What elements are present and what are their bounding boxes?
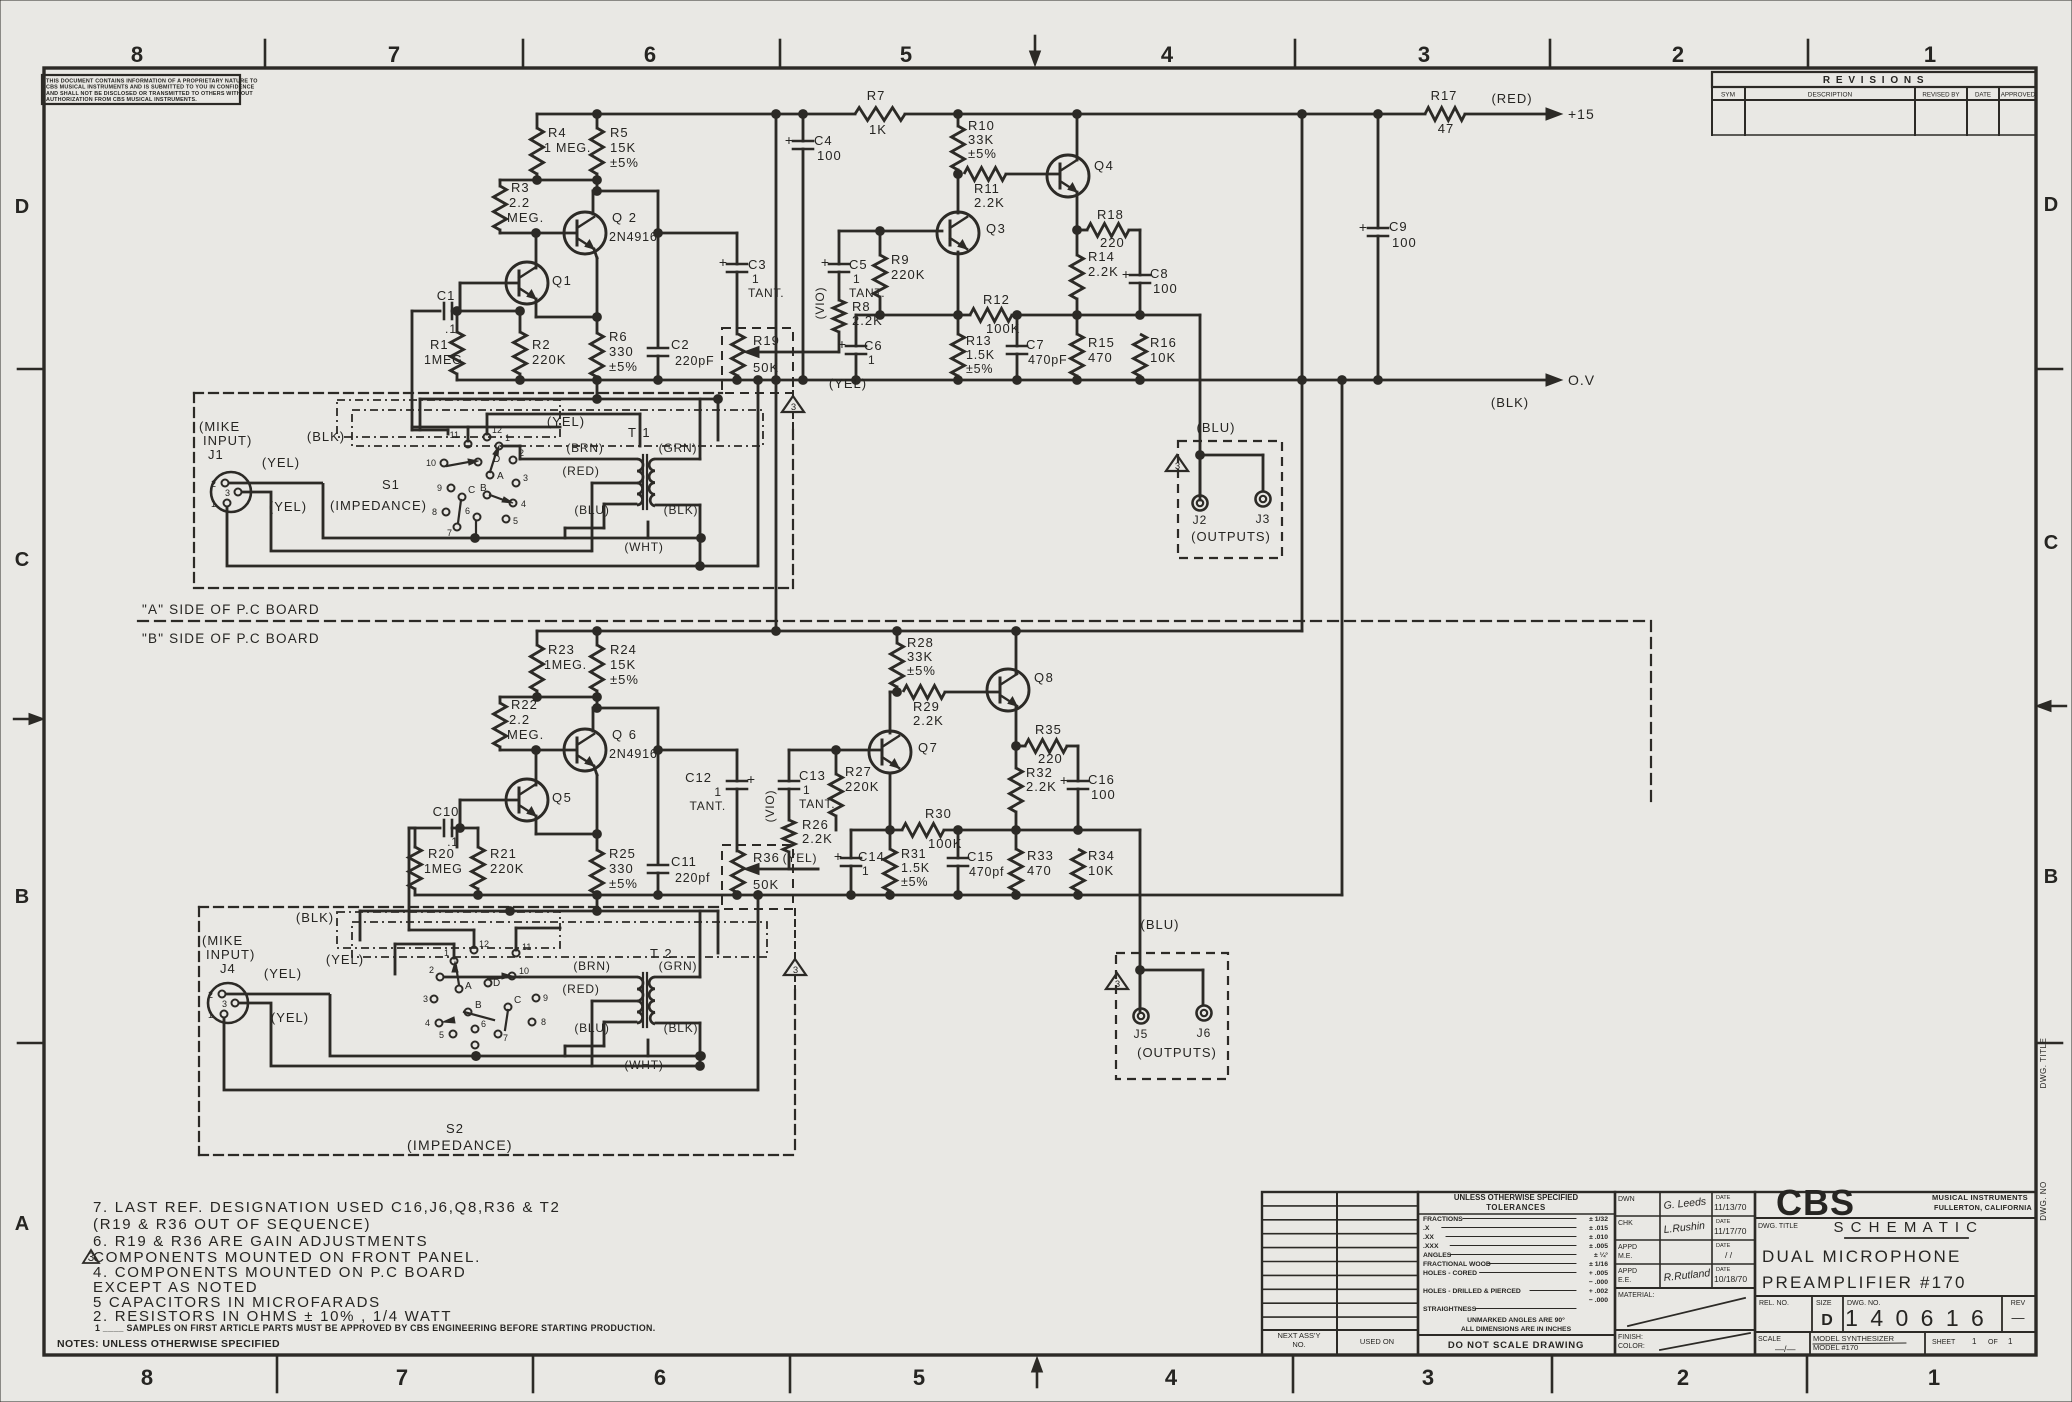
svg-text:FRACTIONAL WOOD: FRACTIONAL WOOD — [1423, 1261, 1491, 1268]
svg-text:REVISED BY: REVISED BY — [1922, 92, 1959, 99]
svg-text:—: — — [2012, 1310, 2025, 1325]
svg-text:220K: 220K — [532, 352, 566, 367]
svg-text:DWG. NO: DWG. NO — [2039, 1181, 2048, 1221]
svg-text:R21: R21 — [490, 846, 517, 861]
svg-text:R23: R23 — [548, 642, 575, 657]
resistor R10 — [957, 114, 960, 126]
svg-text:B: B — [480, 483, 487, 494]
resistor R34 — [1072, 849, 1085, 891]
svg-text:(MIKE: (MIKE — [199, 419, 240, 434]
svg-text:R1: R1 — [430, 337, 449, 352]
svg-text:2.2: 2.2 — [509, 195, 530, 210]
A-side PC board dashed box — [194, 392, 722, 394]
svg-text:3: 3 — [423, 994, 428, 1004]
capacitor C5 — [838, 231, 841, 264]
capacitor C6 — [855, 315, 858, 346]
svg-text:100: 100 — [1153, 281, 1178, 296]
svg-text:R33: R33 — [1027, 848, 1054, 863]
svg-text:+: + — [1060, 772, 1068, 788]
svg-text:6: 6 — [654, 1365, 666, 1390]
bottom zone ticks — [276, 1355, 279, 1392]
wire contact 6 to common bus — [475, 521, 477, 538]
svg-text:220K: 220K — [490, 861, 524, 876]
svg-text:+: + — [719, 254, 727, 270]
left center arrow — [14, 718, 38, 720]
svg-text:R22: R22 — [511, 697, 538, 712]
svg-text:.1: .1 — [445, 322, 457, 336]
svg-text:(VIO): (VIO) — [763, 790, 777, 823]
svg-text:MEG.: MEG. — [507, 727, 544, 742]
svg-text:R18: R18 — [1097, 207, 1124, 222]
resistor R9 — [879, 231, 882, 255]
svg-text:11/13/70: 11/13/70 — [1714, 1202, 1747, 1212]
svg-text:(MIKE: (MIKE — [202, 933, 243, 948]
transistor Q4 — [1047, 155, 1089, 197]
resistor R18 — [1077, 229, 1087, 232]
svg-text:2.2: 2.2 — [509, 712, 530, 727]
capacitor C15 — [957, 830, 960, 858]
svg-text:R34: R34 — [1088, 848, 1115, 863]
svg-text:220pF: 220pF — [675, 354, 714, 368]
resistor R21 — [477, 828, 480, 847]
svg-text:5: 5 — [900, 42, 912, 67]
svg-text:3: 3 — [1175, 461, 1180, 472]
svg-text:PREAMPLIFIER #170: PREAMPLIFIER #170 — [1762, 1273, 1967, 1292]
svg-text:DATE: DATE — [1975, 92, 1991, 99]
svg-text:8: 8 — [131, 42, 143, 67]
svg-text:(YEL): (YEL) — [269, 499, 307, 514]
svg-text:33K: 33K — [907, 649, 933, 664]
svg-text:+: + — [1122, 266, 1130, 282]
title block left grid — [1262, 1192, 1418, 1355]
svg-text:TANT.: TANT. — [748, 286, 784, 300]
transformer T1 secondary lead GRN — [656, 458, 700, 461]
R19 wiper arrow — [752, 351, 838, 354]
wire Q8 emitter node — [1015, 706, 1018, 768]
resistor R31 — [889, 830, 892, 849]
svg-text:470pf: 470pf — [969, 865, 1004, 879]
svg-text:J5: J5 — [1134, 1027, 1149, 1041]
svg-text:1.5K: 1.5K — [966, 348, 995, 362]
svg-text:C15: C15 — [967, 849, 994, 864]
svg-text:ALL DIMENSIONS ARE IN INCHES: ALL DIMENSIONS ARE IN INCHES — [1461, 1326, 1572, 1333]
svg-text:S1: S1 — [382, 477, 400, 492]
svg-text:R9: R9 — [891, 252, 910, 267]
wire R20 top — [409, 827, 415, 830]
svg-text:1: 1 — [752, 272, 760, 286]
wire output BLU channel B — [1078, 829, 1140, 832]
svg-text:APPD: APPD — [1618, 1268, 1637, 1275]
+15 supply rail — [537, 113, 855, 116]
resistor R32 — [1010, 768, 1023, 812]
svg-text:(BLK): (BLK) — [664, 503, 699, 517]
scale / model / sheet row — [1809, 1332, 1811, 1355]
title block company area — [1755, 1192, 2036, 1355]
transformer T2 primary lead BLU — [604, 1021, 636, 1024]
proprietary notice box — [42, 75, 240, 104]
capacitor C13 — [788, 750, 791, 781]
transformer T1 primary winding — [637, 459, 643, 505]
wire to J5 — [1136, 966, 1145, 975]
svg-text:J4: J4 — [220, 961, 236, 976]
svg-text:− .000: − .000 — [1589, 1297, 1608, 1304]
svg-text:R36: R36 — [753, 850, 780, 865]
svg-text:HOLES - CORED: HOLES - CORED — [1423, 1270, 1477, 1277]
svg-text:.XX: .XX — [1423, 1234, 1434, 1241]
svg-text:CHK: CHK — [1618, 1220, 1633, 1227]
channel B return rail — [415, 894, 1342, 897]
svg-text:SYM: SYM — [1721, 92, 1735, 99]
svg-text:1: 1 — [211, 499, 216, 509]
svg-text:33K: 33K — [968, 132, 994, 147]
svg-text:COLOR:: COLOR: — [1618, 1343, 1645, 1350]
capacitor C4 — [802, 114, 805, 141]
svg-text:R28: R28 — [907, 635, 934, 650]
svg-text:470: 470 — [1027, 863, 1052, 878]
wire R20 bottom to rail — [414, 889, 417, 895]
svg-text:J3: J3 — [1256, 512, 1271, 526]
triangle note 3 marker channel A gain pot — [782, 396, 804, 412]
svg-text:R35: R35 — [1035, 722, 1062, 737]
wire Q6 collector node to C11/C12 — [657, 708, 660, 864]
inner shield dash-dot box B — [337, 912, 560, 948]
svg-text:100: 100 — [817, 148, 842, 163]
wire Q7 emitter — [889, 773, 892, 830]
capacitor C10 — [443, 820, 446, 836]
svg-text:C8: C8 — [1150, 266, 1169, 281]
svg-text:USED ON: USED ON — [1360, 1337, 1394, 1346]
right zone ticks — [2036, 368, 2062, 371]
svg-text:R2: R2 — [532, 337, 551, 352]
svg-text:2N4916: 2N4916 — [609, 747, 658, 761]
bottom center arrow — [1036, 1363, 1039, 1387]
svg-text:5: 5 — [913, 1365, 925, 1390]
capacitor C12 — [736, 750, 739, 781]
wire J1 pin3 — [241, 492, 592, 551]
svg-text:(YEL): (YEL) — [829, 376, 867, 391]
svg-text:NO.: NO. — [1292, 1340, 1305, 1349]
svg-text:R12: R12 — [983, 292, 1010, 307]
wire from 0V rail down to switch box — [757, 380, 760, 566]
svg-text:R5: R5 — [610, 125, 629, 140]
svg-text:TANT.: TANT. — [690, 799, 726, 813]
svg-text:(BLK): (BLK) — [664, 1021, 699, 1035]
svg-text:7: 7 — [447, 528, 452, 538]
svg-text:DESCRIPTION: DESCRIPTION — [1808, 92, 1853, 99]
switch S1 wires — [412, 429, 448, 432]
svg-text:C3: C3 — [748, 257, 767, 272]
svg-text:C: C — [514, 995, 521, 1006]
svg-text:6: 6 — [481, 1019, 486, 1029]
transformer T1 secondary winding — [649, 459, 655, 506]
wire to J2 — [1196, 451, 1205, 460]
svg-text:10K: 10K — [1150, 350, 1176, 365]
resistor R13 — [957, 315, 960, 334]
svg-text:1: 1 — [444, 948, 449, 958]
wire Q8 collector — [1015, 631, 1018, 674]
svg-text:C: C — [2044, 532, 2058, 554]
wire R12 node row — [856, 314, 970, 317]
svg-text:A: A — [15, 1213, 29, 1235]
svg-text:(VIO): (VIO) — [813, 287, 827, 320]
svg-text:− .000: − .000 — [1589, 1279, 1608, 1286]
capacitor C11 — [648, 864, 668, 867]
svg-text:THIS DOCUMENT CONTAINS INFORMA: THIS DOCUMENT CONTAINS INFORMATION OF A … — [46, 79, 258, 85]
resistor R11 — [954, 170, 963, 179]
jack J3 — [1256, 492, 1271, 507]
svg-text:(BLK): (BLK) — [307, 429, 345, 444]
jack J6 — [1197, 1006, 1212, 1021]
svg-text:2.2K: 2.2K — [1088, 264, 1119, 279]
svg-text:(IMPEDANCE): (IMPEDANCE) — [407, 1137, 513, 1153]
jack J2 — [1193, 496, 1208, 511]
resistor R7 — [855, 108, 905, 121]
svg-text:R32: R32 — [1026, 765, 1053, 780]
svg-text:8: 8 — [541, 1017, 546, 1027]
svg-text:220: 220 — [1100, 235, 1125, 250]
svg-text:C1: C1 — [437, 288, 456, 303]
resistor R8 — [833, 300, 845, 332]
svg-text:R26: R26 — [802, 817, 829, 832]
svg-text:C12: C12 — [685, 770, 712, 785]
capacitor C7 — [1016, 315, 1019, 346]
svg-text:Q 2: Q 2 — [612, 210, 637, 225]
svg-text:D: D — [15, 196, 29, 218]
svg-text:1: 1 — [1924, 42, 1936, 67]
svg-text:3: 3 — [1418, 42, 1430, 67]
svg-text:C6: C6 — [864, 338, 883, 353]
mike connector J1 — [211, 472, 251, 512]
svg-text:(BRN): (BRN) — [573, 959, 610, 973]
resistor R16 — [1134, 334, 1147, 376]
svg-text:(RED): (RED) — [562, 464, 599, 478]
svg-text:8: 8 — [141, 1365, 153, 1390]
right center arrow — [2042, 705, 2066, 707]
svg-text:Q5: Q5 — [552, 790, 572, 805]
svg-text:(RED): (RED) — [562, 982, 599, 996]
svg-text:FULLERTON, CALIFORNIA: FULLERTON, CALIFORNIA — [1934, 1203, 2032, 1212]
svg-text:220pf: 220pf — [675, 871, 710, 885]
wire C10 left to switch B — [409, 827, 440, 830]
svg-text:50K: 50K — [753, 877, 779, 892]
svg-text:9: 9 — [437, 483, 442, 493]
svg-text:(YEL): (YEL) — [262, 455, 300, 470]
svg-text:S2: S2 — [446, 1121, 464, 1136]
svg-text:R15: R15 — [1088, 335, 1115, 350]
svg-text:(OUTPUTS): (OUTPUTS) — [1191, 529, 1271, 544]
svg-text:CBS: CBS — [1776, 1182, 1855, 1223]
transformer T1 primary lead BRN — [520, 458, 636, 461]
wire Q5 emitter to R25 node — [535, 816, 538, 834]
wire Q1 emitter to R6 node — [535, 299, 538, 317]
svg-text:R11: R11 — [974, 181, 1000, 196]
svg-text:± 1/16: ± 1/16 — [1589, 1261, 1608, 1268]
svg-text:FRACTIONS: FRACTIONS — [1423, 1216, 1463, 1223]
svg-text:D: D — [493, 978, 500, 989]
svg-text:C: C — [468, 485, 475, 496]
svg-text:1 4 0 6 1 6: 1 4 0 6 1 6 — [1845, 1305, 1987, 1331]
svg-text:(YEL): (YEL) — [271, 1010, 309, 1025]
svg-text:(BLK): (BLK) — [1491, 395, 1529, 410]
svg-text:DWG. TITLE: DWG. TITLE — [1758, 1223, 1798, 1230]
svg-text:4: 4 — [1165, 1365, 1178, 1390]
svg-text:DATE: DATE — [1716, 1243, 1731, 1249]
transformer T2 secondary lead BLK — [656, 1022, 700, 1025]
mike connector J4 — [208, 983, 248, 1023]
svg-text:REL. NO.: REL. NO. — [1759, 1300, 1789, 1307]
resistor R22 — [499, 697, 502, 703]
svg-text:MATERIAL:: MATERIAL: — [1618, 1292, 1654, 1299]
svg-text:C13: C13 — [799, 768, 826, 783]
transistor Q3 — [937, 212, 979, 254]
wire J1 pin2 — [228, 482, 323, 485]
svg-text:3: 3 — [1115, 979, 1120, 990]
svg-text:—/—: —/— — [1775, 1344, 1796, 1354]
svg-text:1.5K: 1.5K — [901, 861, 930, 875]
svg-text:DUAL MICROPHONE: DUAL MICROPHONE — [1762, 1247, 1962, 1266]
svg-text:4: 4 — [425, 1018, 430, 1028]
capacitor C1 — [443, 303, 446, 319]
wire Q3 base — [839, 230, 942, 233]
svg-text:100: 100 — [1392, 235, 1417, 250]
svg-text:± ¼°: ± ¼° — [1594, 1251, 1608, 1259]
svg-text:MUSICAL INSTRUMENTS: MUSICAL INSTRUMENTS — [1932, 1193, 2028, 1202]
svg-text:(BLU): (BLU) — [574, 1021, 609, 1035]
svg-text:+: + — [785, 132, 793, 148]
svg-text:330: 330 — [609, 861, 634, 876]
svg-text:1: 1 — [208, 1010, 213, 1020]
wire Q6 emitter — [594, 766, 597, 775]
resistor R14 — [1071, 255, 1084, 299]
transformer T1 center tap RED — [592, 482, 637, 485]
wire J1 pin1 — [227, 507, 758, 566]
svg-text:2N4916: 2N4916 — [609, 230, 658, 244]
svg-text:4: 4 — [1161, 42, 1174, 67]
svg-text:AUTHORIZATION FROM CBS MUSICAL: AUTHORIZATION FROM CBS MUSICAL INSTRUMEN… — [46, 97, 197, 103]
wire R4/R5 bottoms — [500, 179, 597, 182]
svg-text:1K: 1K — [869, 122, 887, 137]
resistor R2 — [519, 311, 522, 332]
svg-text:12: 12 — [479, 939, 489, 949]
svg-text:4: 4 — [521, 499, 526, 509]
svg-text:±5%: ±5% — [966, 362, 993, 376]
transistor Q5 — [506, 779, 548, 821]
svg-text:R16: R16 — [1150, 335, 1177, 350]
svg-text:1: 1 — [862, 864, 870, 878]
svg-text:"B" SIDE OF P.C BOARD: "B" SIDE OF P.C BOARD — [142, 631, 320, 646]
svg-text:Q3: Q3 — [986, 221, 1006, 236]
svg-text:A: A — [465, 981, 472, 992]
svg-text:C16: C16 — [1088, 772, 1115, 787]
svg-text:R13: R13 — [966, 334, 991, 348]
top zone ticks — [264, 40, 267, 68]
svg-text:1: 1 — [1972, 1337, 1977, 1346]
svg-text:C7: C7 — [1026, 337, 1045, 352]
svg-text:S C H E M A T I C: S C H E M A T I C — [1834, 1219, 1979, 1236]
svg-text:NEXT ASS'Y: NEXT ASS'Y — [1278, 1331, 1321, 1340]
svg-text:R7: R7 — [867, 88, 886, 103]
svg-text:220K: 220K — [891, 267, 925, 282]
svg-text:Q8: Q8 — [1034, 670, 1054, 685]
svg-text:R25: R25 — [609, 846, 636, 861]
svg-text:7: 7 — [388, 42, 400, 67]
resistor R20 — [414, 846, 417, 849]
svg-text:REV: REV — [2011, 1300, 2026, 1307]
wire 0V rail to channel B rail — [1341, 380, 1344, 895]
wire to J3 — [1200, 454, 1263, 457]
wire +15 rail to channel B rail — [1301, 114, 1304, 631]
transistor Q6 — [564, 729, 606, 771]
svg-text:Q4: Q4 — [1094, 158, 1114, 173]
svg-text:2.2K: 2.2K — [802, 831, 833, 846]
capacitor C14 — [850, 830, 853, 858]
svg-text:(WHT): (WHT) — [624, 1058, 663, 1072]
transformer T1 secondary lead BLK — [656, 504, 700, 507]
svg-text:+: + — [821, 254, 829, 270]
svg-text:INPUT): INPUT) — [206, 947, 255, 962]
transformer T1 core — [642, 455, 644, 509]
wire R3 to Q2 base — [500, 232, 577, 235]
svg-text:1: 1 — [803, 783, 811, 797]
svg-text:J1: J1 — [208, 447, 224, 462]
potentiometer R19 dashed enclosure — [722, 328, 793, 393]
svg-text:R29: R29 — [913, 699, 940, 714]
svg-text:MEG.: MEG. — [507, 210, 544, 225]
title block approval column — [1615, 1192, 1755, 1355]
inner shield dash-dot box A — [337, 400, 560, 437]
svg-text:±5%: ±5% — [968, 146, 997, 161]
potentiometer R36 dashed enclosure — [722, 845, 793, 909]
wire contact 2 to transformer B — [444, 976, 520, 979]
svg-text:C10: C10 — [433, 804, 460, 819]
svg-text:B: B — [475, 1000, 482, 1011]
svg-text:R20: R20 — [428, 846, 455, 861]
resistor R12 — [970, 309, 1012, 322]
rel no / size / dwg no / rev row — [1811, 1296, 1813, 1332]
svg-text:OF: OF — [1988, 1339, 1998, 1346]
resistor R30 — [902, 824, 944, 837]
svg-text:HOLES - DRILLED & PIERCED: HOLES - DRILLED & PIERCED — [1423, 1288, 1521, 1295]
svg-text:+ .002: + .002 — [1589, 1288, 1608, 1295]
transformer T2 center tap RED — [592, 1000, 637, 1003]
wire J4 pin2 — [225, 993, 330, 996]
svg-text:±5%: ±5% — [901, 875, 928, 889]
svg-text:1 MEG.: 1 MEG. — [544, 141, 591, 155]
triangle note 3 marker outputs A — [1166, 455, 1188, 471]
svg-text:12: 12 — [492, 425, 502, 435]
svg-text:± .010: ± .010 — [1589, 1234, 1608, 1241]
wire Q5 base — [460, 799, 519, 802]
resistor R29 — [893, 688, 902, 697]
capacitor C2 — [648, 347, 668, 350]
svg-text:D: D — [493, 454, 500, 465]
svg-text:R E V I S I O N S: R E V I S I O N S — [1823, 75, 1925, 86]
svg-text:MODEL SYNTHESIZER: MODEL SYNTHESIZER — [1813, 1334, 1895, 1343]
svg-text:15K: 15K — [610, 657, 636, 672]
svg-text:2.2K: 2.2K — [974, 195, 1005, 210]
svg-text:ANGLES: ANGLES — [1423, 1252, 1452, 1259]
wire J4 pin1 — [224, 1018, 758, 1090]
resistor R6 — [591, 333, 604, 377]
transformer T2 secondary lead GRN — [656, 976, 700, 979]
transformer T2 secondary winding — [649, 977, 655, 1024]
svg-text:+: + — [838, 336, 846, 352]
title block tolerances box — [1418, 1192, 1615, 1355]
svg-text:±5%: ±5% — [609, 876, 638, 891]
svg-text:C4: C4 — [814, 133, 833, 148]
svg-text:FINISH:: FINISH: — [1618, 1334, 1643, 1341]
revisions block — [1712, 72, 2036, 87]
